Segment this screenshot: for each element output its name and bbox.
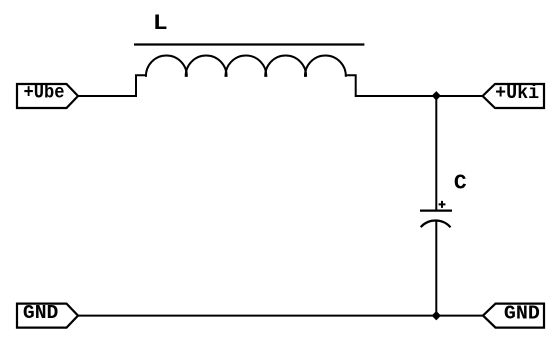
node junction top xyxy=(432,92,440,100)
terminal +Ube xyxy=(17,82,78,109)
wire inductor to +Uki xyxy=(356,95,483,97)
bottom wire GND to GND xyxy=(78,315,483,317)
svg-text:+Uki: +Uki xyxy=(495,82,539,104)
wire junction to capacitor xyxy=(435,96,437,211)
terminal GND left xyxy=(17,302,78,328)
terminal +Uki xyxy=(483,82,544,108)
svg-text:GND: GND xyxy=(23,302,59,324)
capacitor C xyxy=(420,96,452,316)
plus polarity mark xyxy=(439,201,446,208)
svg-text:L: L xyxy=(153,11,168,36)
inductor L xyxy=(136,55,356,97)
svg-text:+Ube: +Ube xyxy=(24,82,65,104)
svg-text:GND: GND xyxy=(504,302,540,324)
inductor core line xyxy=(134,43,364,45)
terminal GND right xyxy=(483,302,544,327)
wire +Ube to inductor xyxy=(78,95,136,97)
capacitor bottom plate (curved) xyxy=(421,220,451,227)
capacitor top plate xyxy=(420,210,452,212)
wire capacitor to bottom junction xyxy=(435,221,437,316)
node junction bottom xyxy=(432,312,440,320)
svg-text:C: C xyxy=(454,172,467,196)
